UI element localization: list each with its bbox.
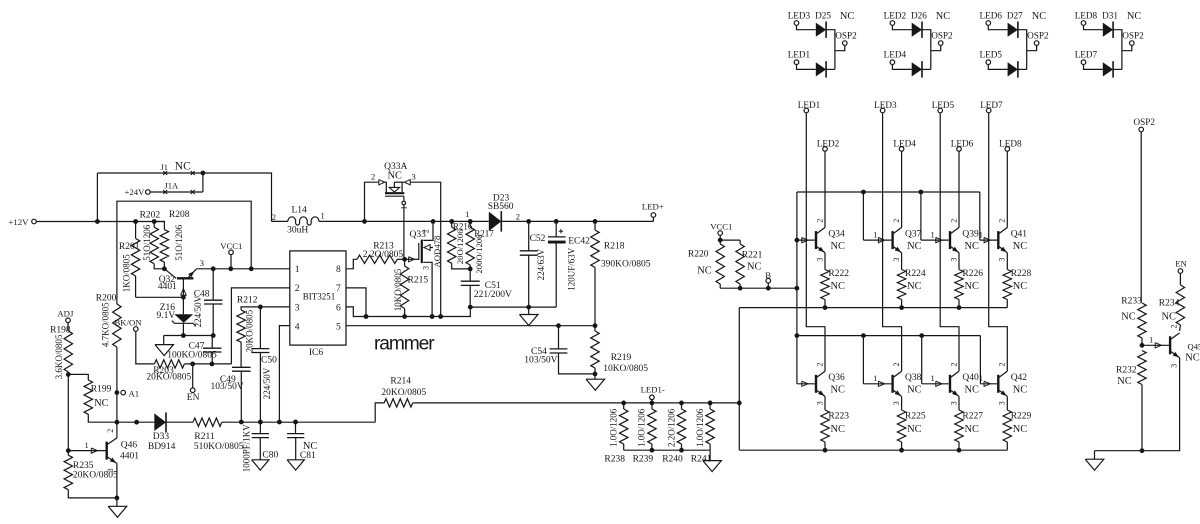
node LED1 [794, 60, 799, 65]
svg-text:LED6: LED6 [951, 138, 974, 148]
wire bottom base bus [797, 335, 981, 337]
wire base drop Q42 [979, 336, 981, 384]
svg-text:OSP2: OSP2 [835, 30, 857, 40]
resistor R235 [67, 451, 69, 456]
svg-text:LED4: LED4 [893, 138, 916, 148]
svg-text:NC: NC [907, 241, 922, 252]
wire LED1- rail [413, 402, 740, 404]
svg-text:R234: R234 [1159, 299, 1180, 309]
wire [154, 264, 164, 269]
wire +12V rail [36, 221, 164, 223]
svg-text:LED2: LED2 [884, 11, 907, 21]
svg-text:10KO/0805: 10KO/0805 [603, 364, 648, 374]
svg-text:LED6: LED6 [980, 11, 1003, 21]
wire base lead Q45 [1142, 344, 1169, 346]
resistor R217 [469, 221, 471, 227]
node EN (right) [1178, 269, 1183, 274]
svg-text:LED8: LED8 [1075, 11, 1098, 21]
wire base bus vertical [796, 192, 798, 336]
svg-text:+24V: +24V [125, 187, 146, 197]
wire base lead Q34 [797, 239, 815, 241]
wire [88, 414, 117, 422]
svg-text:4.7KO/0805: 4.7KO/0805 [101, 302, 111, 347]
wire [1141, 338, 1143, 345]
wire pin7 [346, 288, 366, 317]
svg-text:7: 7 [336, 284, 341, 294]
wire Q46 emitter [116, 463, 118, 498]
node LED4 [890, 60, 895, 65]
svg-text:221/200V: 221/200V [474, 290, 512, 300]
svg-text:1: 1 [979, 373, 983, 383]
svg-text:NC: NC [965, 424, 980, 435]
svg-text:Q40: Q40 [962, 373, 979, 383]
ground (R219/C54) [594, 374, 596, 379]
wire base drop Q36 [796, 336, 798, 384]
wire pin6 / analog ground rail [346, 307, 470, 317]
wire [988, 25, 1007, 29]
resistor R224 [897, 270, 905, 300]
wire R227 to emitter bus [958, 442, 960, 450]
wire [594, 267, 596, 325]
svg-text:LED4: LED4 [884, 49, 907, 59]
wire bottom emitter bus [739, 449, 1007, 451]
svg-text:NC: NC [1127, 11, 1142, 22]
node LED2 [823, 147, 828, 152]
svg-text:R220: R220 [688, 250, 709, 260]
node OSP2 [843, 41, 848, 46]
svg-text:R239: R239 [633, 454, 654, 464]
svg-text:2: 2 [422, 229, 431, 233]
wire [1122, 45, 1132, 50]
svg-text:D26: D26 [911, 11, 927, 21]
wire [892, 65, 911, 70]
wire [1179, 273, 1181, 285]
svg-text:R222: R222 [828, 269, 849, 279]
svg-text:1: 1 [1149, 335, 1153, 345]
wire [136, 296, 184, 298]
resistor R200 [113, 304, 121, 347]
wire [452, 263, 471, 269]
svg-text:1: 1 [873, 230, 877, 240]
node LED3 [794, 21, 799, 26]
wire low-side bus [117, 421, 154, 423]
node LED7 [986, 108, 991, 113]
svg-text:LED+: LED+ [642, 202, 664, 212]
svg-text:510KO/0805: 510KO/0805 [194, 442, 244, 452]
transistor Q45 [1169, 336, 1171, 354]
ground (Z16) [163, 336, 165, 345]
wire R224 to emitter bus [901, 300, 903, 308]
svg-text:R215: R215 [408, 275, 429, 285]
svg-text:J1: J1 [161, 162, 169, 172]
svg-text:NC: NC [831, 385, 846, 396]
svg-text:OSP2: OSP2 [931, 30, 953, 40]
wire [559, 353, 596, 374]
svg-text:4401: 4401 [158, 282, 177, 292]
wire LED6 to upper transistor collector [958, 151, 960, 227]
wire LED7 to lower transistor collector [989, 113, 1008, 372]
wire LED3 to lower transistor collector [883, 113, 902, 372]
capacitor C81 [295, 422, 297, 434]
svg-text:R201: R201 [119, 242, 140, 252]
resistor R202 [153, 222, 155, 228]
resistor R228 [1003, 270, 1011, 300]
wire base lead Q36 [797, 383, 815, 385]
wire [469, 265, 471, 269]
svg-text:3.6KO/0805: 3.6KO/0805 [54, 334, 64, 379]
svg-text:R227: R227 [962, 412, 983, 422]
svg-text:3: 3 [200, 258, 204, 268]
svg-text:3: 3 [412, 172, 416, 182]
wire [797, 65, 816, 70]
wire switch rail [272, 220, 288, 222]
svg-text:NC: NC [1185, 353, 1200, 364]
wire [166, 421, 193, 423]
svg-text:NC: NC [965, 385, 980, 396]
wire Q33B gate [405, 258, 419, 260]
capacitor C48 [212, 269, 214, 300]
svg-text:OSP2: OSP2 [1134, 117, 1156, 127]
svg-text:4: 4 [295, 322, 300, 332]
svg-text:EC42: EC42 [568, 236, 590, 246]
svg-text:NC: NC [697, 266, 712, 277]
svg-text:R221: R221 [742, 251, 763, 261]
wire [555, 244, 557, 308]
svg-text:C50: C50 [261, 356, 277, 366]
svg-text:1: 1 [931, 373, 935, 383]
diode D26 (bottom) [912, 62, 922, 76]
node ADJ [66, 318, 71, 323]
wire [826, 30, 835, 70]
wire [259, 353, 261, 423]
svg-text:R238: R238 [604, 454, 625, 464]
svg-text:2.2O/1206: 2.2O/1206 [666, 408, 676, 447]
svg-text:C52: C52 [530, 234, 546, 244]
svg-text:1: 1 [931, 230, 935, 240]
svg-text:R233: R233 [1121, 297, 1142, 307]
svg-text:2: 2 [272, 212, 276, 222]
transistor Q37 [891, 231, 893, 249]
wire pin8 [346, 259, 357, 269]
node LED5 [986, 60, 991, 65]
wire base lead Q37 [863, 239, 891, 241]
svg-text:NC: NC [94, 398, 109, 409]
wire [397, 258, 404, 260]
resistor R238 [623, 403, 625, 409]
svg-text:10KO/0805: 10KO/0805 [393, 268, 403, 311]
svg-text:LED2: LED2 [817, 138, 840, 148]
resistor R225 [897, 410, 905, 442]
wire R229 to emitter bus [1006, 442, 1008, 450]
capacitor C54 [558, 326, 560, 349]
wire pin4 [279, 326, 289, 422]
svg-text:ADJ: ADJ [57, 309, 74, 319]
diode D26 (top) [912, 23, 922, 37]
svg-text:2: 2 [949, 363, 958, 367]
wire base drop Q39 [920, 192, 922, 240]
transistor Q46 [105, 442, 107, 460]
svg-text:LED1-: LED1- [641, 384, 665, 394]
wire emitter Q39 [958, 253, 960, 270]
svg-text:R218: R218 [604, 242, 625, 252]
svg-text:51O/1206: 51O/1206 [174, 224, 184, 261]
wire emitter Q41 [1006, 253, 1008, 270]
wire Q45 emitter to ground rail [1095, 358, 1180, 451]
resistor R198 [64, 331, 72, 372]
svg-text:30uH: 30uH [287, 225, 308, 235]
wire [528, 255, 530, 307]
wire [211, 352, 213, 364]
wire [375, 403, 384, 422]
wire emitter Q36 [824, 396, 826, 410]
op-amp U/IC6 BIT3251 body [290, 251, 346, 345]
svg-text:BK/ON: BK/ON [115, 318, 143, 328]
svg-text:EN: EN [1175, 259, 1187, 269]
node B [766, 278, 771, 283]
svg-text:3: 3 [949, 401, 958, 405]
wire [68, 490, 117, 498]
wire pin2 (EN) [231, 288, 289, 364]
svg-text:SB560: SB560 [488, 202, 514, 212]
svg-text:6: 6 [336, 303, 341, 313]
wire cap ground rail [470, 306, 556, 308]
node OSP2 [1034, 41, 1039, 46]
wire [1018, 68, 1027, 70]
svg-text:1: 1 [399, 206, 408, 210]
svg-text:Q37: Q37 [905, 229, 922, 239]
wire to J1 [96, 173, 98, 222]
svg-text:NC: NC [840, 11, 855, 22]
svg-text:3: 3 [949, 258, 958, 262]
svg-text:OSP2: OSP2 [1122, 30, 1144, 40]
transistor Q34 [815, 231, 817, 249]
wire base lead Q41 [980, 239, 997, 241]
svg-text:224/50V: 224/50V [262, 367, 272, 399]
wire emitter Q37 [901, 253, 903, 270]
svg-text:3: 3 [1170, 364, 1179, 368]
wire emitter Q34 [824, 253, 826, 270]
transistor Q38 [891, 375, 893, 393]
wire [988, 65, 1007, 70]
wire Q32 collector rail [196, 268, 290, 270]
wire base drop Q41 [979, 192, 981, 240]
svg-text:R232: R232 [1116, 365, 1137, 375]
node OSP2 [938, 41, 943, 46]
svg-text:Q42: Q42 [1011, 373, 1028, 383]
svg-text:4401: 4401 [120, 452, 139, 462]
resistor R214 [384, 399, 413, 407]
svg-text:NC: NC [907, 424, 922, 435]
transistor Q42 [997, 375, 999, 393]
wire [212, 304, 214, 336]
svg-text:R223: R223 [828, 412, 849, 422]
svg-text:Q36: Q36 [828, 373, 845, 383]
svg-text:20KO/0805: 20KO/0805 [381, 388, 426, 398]
svg-text:NC: NC [907, 385, 922, 396]
resistor R239 [651, 403, 653, 409]
diode D27 (top) [1008, 23, 1018, 37]
svg-text:1: 1 [295, 265, 300, 275]
wire base lead Q38 [863, 383, 891, 385]
svg-text:LED1: LED1 [798, 100, 821, 110]
svg-text:51O/1206: 51O/1206 [142, 224, 152, 261]
svg-text:2: 2 [106, 429, 115, 433]
wire base lead Q40 [922, 383, 949, 385]
wire [931, 45, 941, 50]
resistor R203 [154, 360, 184, 368]
node EN [192, 364, 194, 388]
svg-text:LED7: LED7 [980, 100, 1003, 110]
wire Z16 cathode rail [182, 323, 184, 335]
wire LED4 to upper transistor collector [901, 151, 903, 227]
svg-text:8: 8 [336, 265, 341, 275]
wire base drop Q40 [921, 336, 923, 384]
wire [1141, 385, 1143, 451]
svg-text:R202: R202 [140, 211, 161, 221]
svg-text:224/63V: 224/63V [536, 248, 546, 280]
node LED1- [651, 400, 653, 403]
diode D33 BD914 [154, 413, 166, 431]
svg-text:2: 2 [1170, 325, 1179, 329]
svg-text:NC: NC [936, 11, 951, 22]
wire EN rail [184, 363, 231, 365]
wire [719, 235, 721, 244]
svg-text:1: 1 [321, 211, 325, 221]
wire [1018, 30, 1027, 70]
svg-text:2: 2 [516, 212, 520, 222]
ground (C81) [295, 438, 297, 460]
wire R226 to emitter bus [958, 300, 960, 308]
svg-text:EN: EN [187, 393, 200, 403]
wire [922, 30, 931, 70]
resistor R226 [955, 270, 963, 300]
svg-text:NC: NC [747, 262, 762, 273]
wire net B [720, 287, 797, 289]
svg-text:VCC1: VCC1 [220, 241, 242, 251]
svg-text:NC: NC [1013, 385, 1028, 396]
transistor Q40 [949, 375, 951, 393]
svg-text:390KO/0805: 390KO/0805 [601, 259, 651, 269]
node LED8 [1005, 147, 1010, 152]
transistor Q36 [815, 375, 817, 393]
svg-text:D25: D25 [815, 11, 831, 21]
svg-text:1: 1 [979, 230, 983, 240]
svg-text:120UF/63V: 120UF/63V [566, 247, 576, 291]
svg-text:VCC1: VCC1 [710, 221, 732, 231]
node +24V [146, 190, 151, 195]
svg-text:2: 2 [815, 219, 824, 223]
svg-text:LED1: LED1 [788, 49, 811, 59]
svg-text:R229: R229 [1011, 412, 1032, 422]
wire [922, 68, 931, 70]
diode D27 (bottom) [1008, 62, 1018, 76]
wire [1084, 65, 1103, 70]
wire R222 to emitter bus [824, 300, 826, 308]
jumper J1 [97, 172, 202, 174]
svg-text:Q39: Q39 [962, 229, 979, 239]
svg-text:1: 1 [465, 209, 469, 219]
svg-text:C80: C80 [262, 451, 278, 461]
wire top emitter bus [739, 307, 1007, 309]
svg-text:NC: NC [1117, 376, 1132, 387]
resistor R216 [451, 221, 453, 227]
resistor R208 [154, 222, 164, 230]
svg-text:NC: NC [1013, 424, 1028, 435]
svg-text:R200: R200 [96, 294, 117, 304]
svg-text:A1: A1 [129, 388, 140, 398]
svg-text:R219: R219 [611, 353, 632, 363]
transistor Q39 [949, 231, 951, 249]
node OSP2 [1130, 41, 1135, 46]
svg-text:Q38: Q38 [905, 373, 922, 383]
resistor R218 [594, 221, 596, 230]
ground (Q46) [116, 498, 118, 506]
resistor R223 [821, 410, 829, 442]
node LED2 [890, 21, 895, 26]
resistor R201 [135, 222, 137, 239]
svg-text:2: 2 [371, 172, 375, 182]
svg-text:LED5: LED5 [980, 49, 1003, 59]
svg-text:NC: NC [388, 170, 403, 181]
resistor R233 [1138, 303, 1146, 338]
wire pin5 (FB) [346, 325, 595, 327]
svg-text:3: 3 [815, 258, 824, 262]
resistor R212 [237, 310, 245, 342]
svg-text:R226: R226 [962, 269, 983, 279]
diode D31 (top) [1103, 23, 1113, 37]
svg-text:+12V: +12V [9, 217, 30, 227]
svg-text:Q41: Q41 [1011, 229, 1028, 239]
wire base lead Q46 [68, 450, 105, 452]
svg-text:20KO/0805: 20KO/0805 [146, 373, 191, 383]
wire emitter Q42 [1006, 396, 1008, 410]
wire [835, 45, 845, 50]
node VCC1 [229, 250, 234, 255]
resistor R229 [1003, 410, 1011, 442]
svg-text:J1A: J1A [165, 180, 180, 190]
wire [1113, 68, 1122, 70]
diode D31 (bottom) [1103, 62, 1113, 76]
resistor R241 [709, 403, 711, 409]
svg-text:R224: R224 [905, 269, 926, 279]
svg-text:1: 1 [85, 440, 89, 450]
svg-text:3: 3 [295, 303, 300, 313]
wire [404, 309, 406, 317]
svg-text:R211: R211 [194, 432, 214, 442]
svg-text:1.0O/1206: 1.0O/1206 [695, 408, 705, 447]
svg-text:R199: R199 [91, 385, 112, 395]
wire Q33A gate [403, 196, 405, 259]
wire [67, 372, 69, 375]
svg-text:20O/1206: 20O/1206 [455, 229, 465, 264]
svg-text:2: 2 [949, 219, 958, 223]
svg-text:3: 3 [892, 401, 901, 405]
svg-text:NC: NC [965, 281, 980, 292]
wire output rail [501, 220, 653, 222]
resistor R211 [193, 418, 222, 426]
wire R223 to emitter bus [824, 442, 826, 450]
wire Q46 collector [116, 422, 118, 438]
svg-text:R198: R198 [50, 325, 71, 335]
svg-text:LED7: LED7 [1075, 49, 1098, 59]
ground (right block) [1094, 451, 1096, 460]
resistor R213 [357, 255, 397, 263]
wire [230, 255, 232, 269]
svg-text:BIT3251: BIT3251 [303, 292, 336, 302]
capacitor C50 [259, 307, 261, 349]
svg-text:3: 3 [892, 258, 901, 262]
capacitor C47 [211, 336, 213, 349]
